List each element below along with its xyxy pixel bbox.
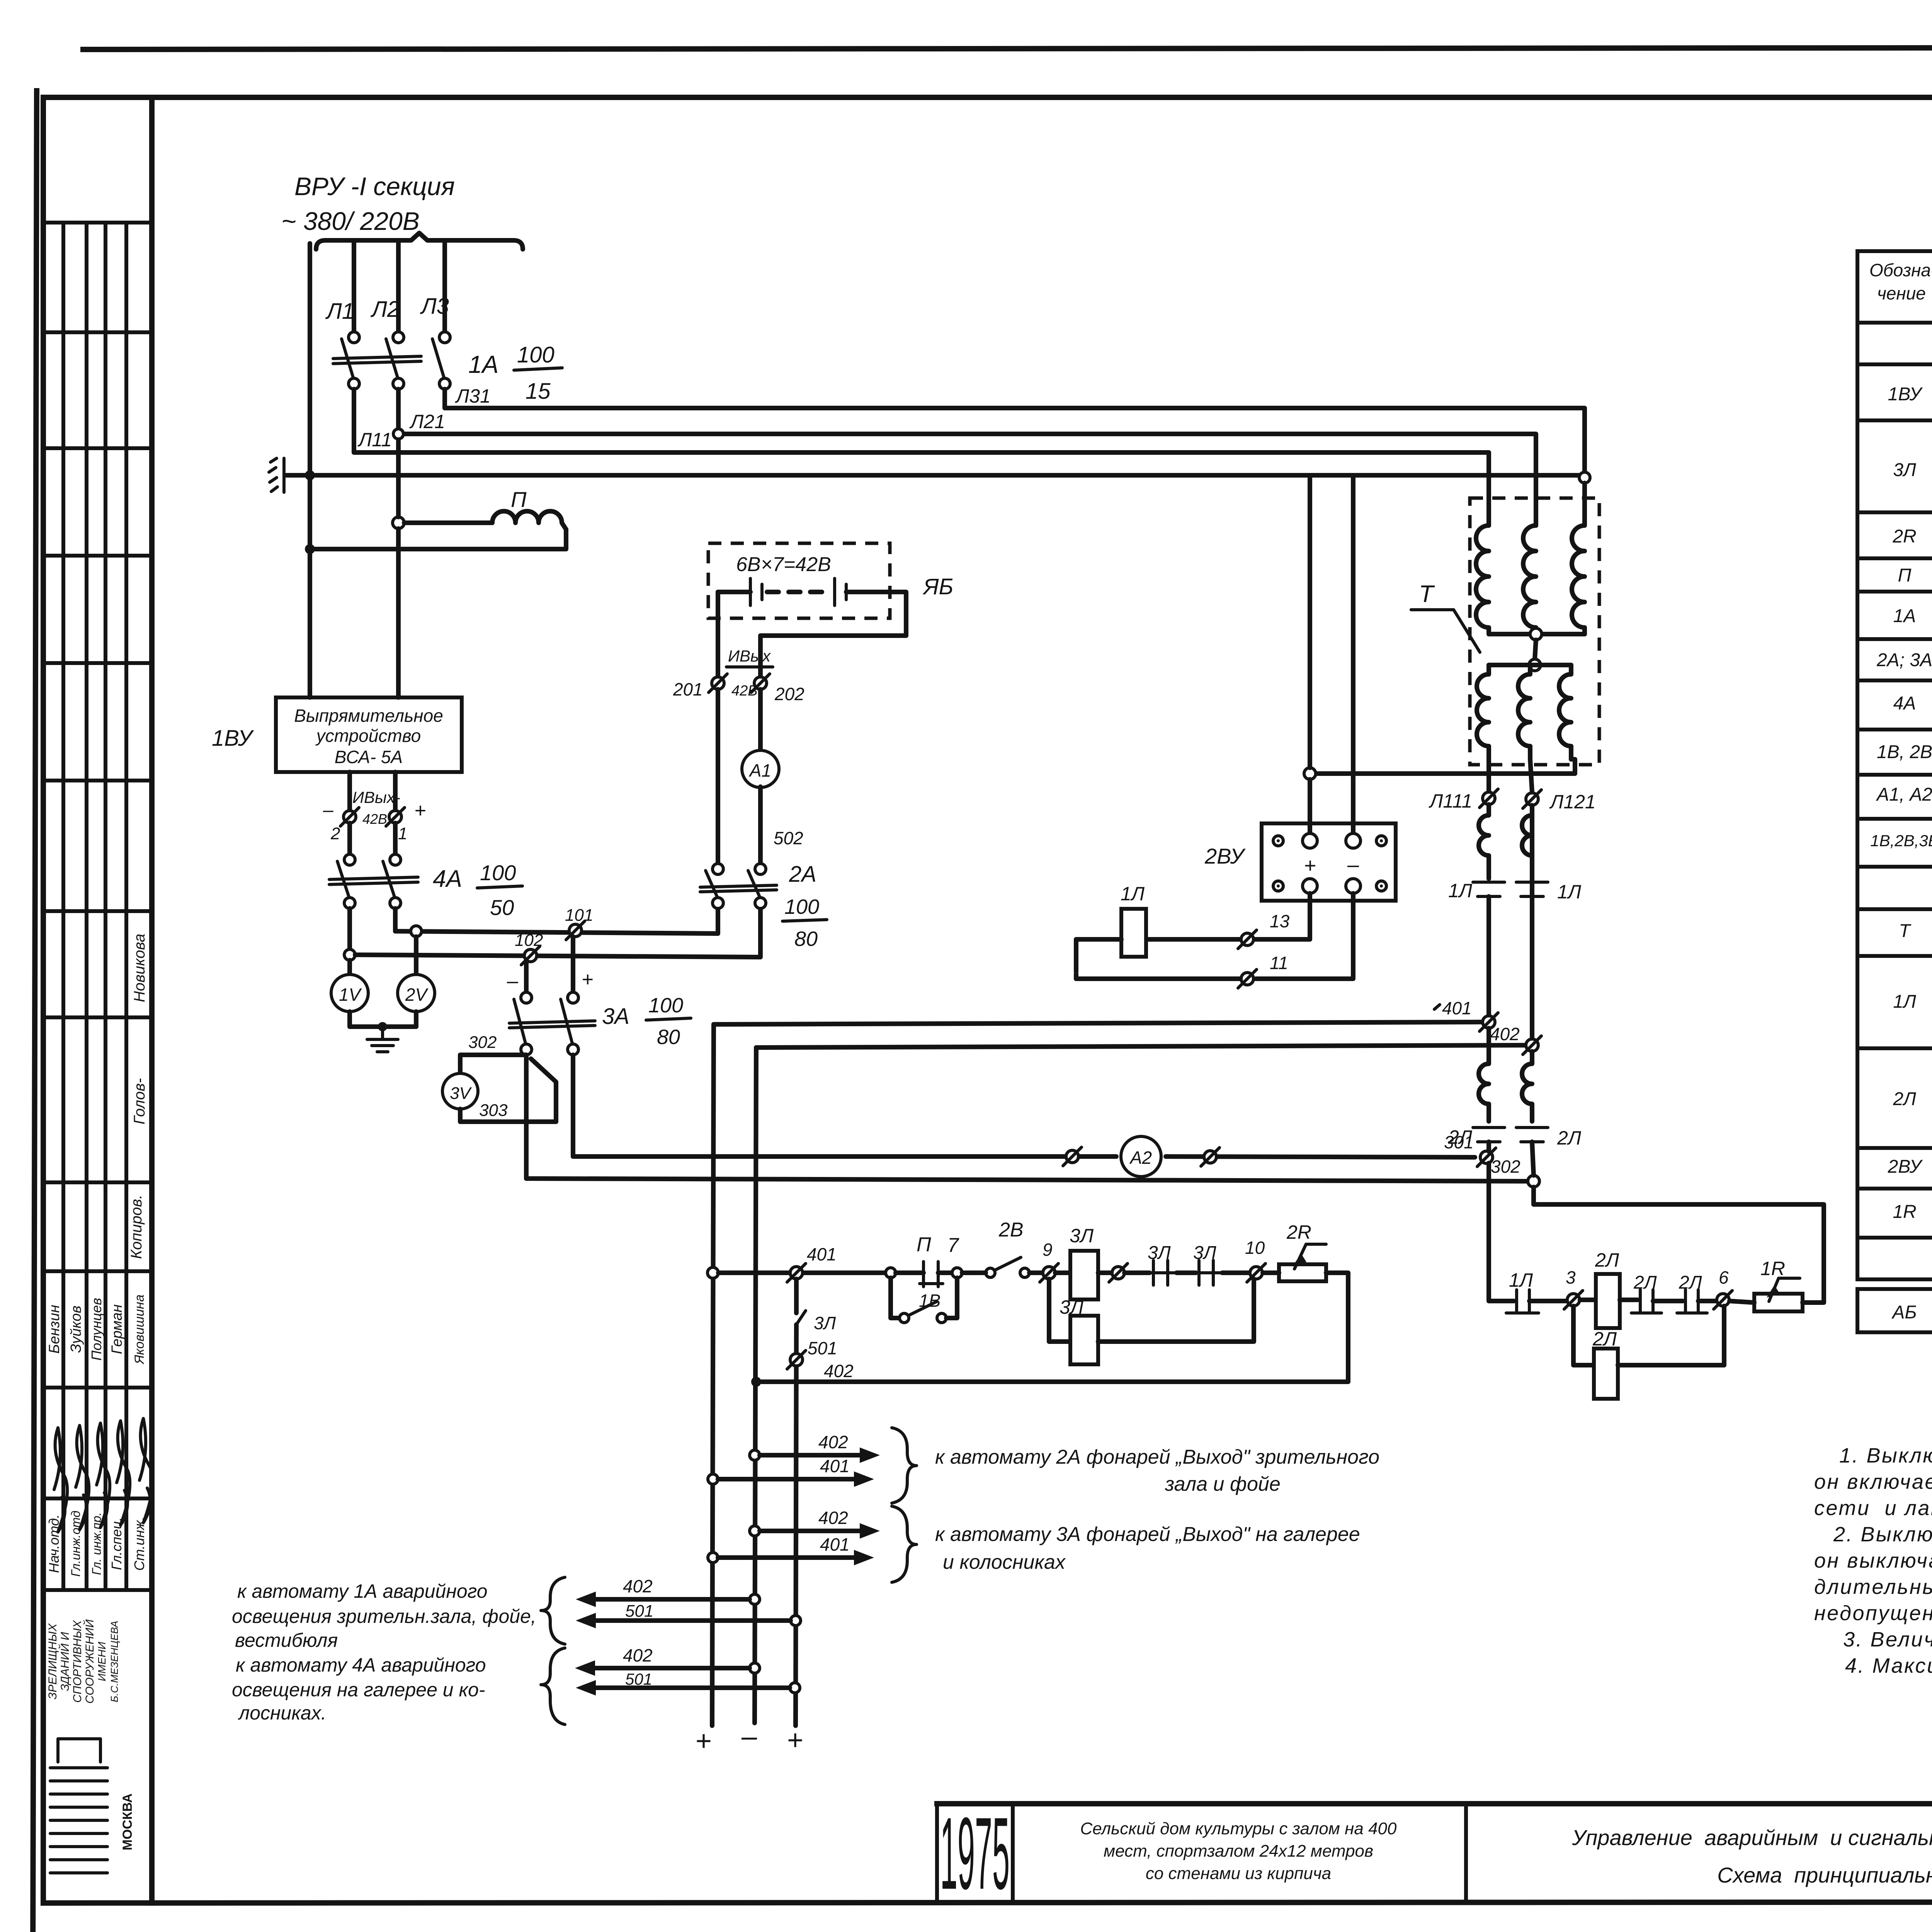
svg-text:3. Величина сопротивления 1R: 3. Величина сопротивления 1R и 2R подбир… — [1843, 1628, 1932, 1651]
node on bus 102 for voltmeter 1V — [344, 949, 355, 960]
wire N drop from bracket — [308, 243, 312, 697]
bus L11 — [354, 389, 1489, 520]
svg-text:ВСА- 5А: ВСА- 5А — [335, 747, 403, 767]
svg-text:102: 102 — [515, 931, 543, 950]
svg-text:к автомату 3А фонарей „Выход": к автомату 3А фонарей „Выход" на галерее — [935, 1523, 1360, 1546]
svg-text:1V: 1V — [339, 985, 362, 1005]
terminal 202 — [754, 677, 767, 689]
breaker 2A pole 1 — [713, 864, 723, 874]
breaker 4A pole 1 — [344, 854, 355, 865]
svg-text:мест, спортзалом 24х12 метров: мест, спортзалом 24х12 метров — [1104, 1842, 1373, 1861]
primary star line — [1489, 632, 1585, 636]
transformer primary coil 1 — [1476, 520, 1489, 634]
node relay line on 401 — [707, 1267, 718, 1278]
svg-text:Л2: Л2 — [370, 297, 400, 322]
bus 401 from relay column — [714, 1022, 1482, 1024]
node L21 corner — [393, 429, 403, 439]
coil 2L lower bypass — [1573, 1306, 1593, 1365]
contact P — [896, 1270, 923, 1275]
breaker 4A linkage — [329, 877, 418, 879]
svg-text:302: 302 — [1491, 1156, 1520, 1177]
terminal 6 — [1717, 1294, 1729, 1306]
svg-text:П: П — [1898, 565, 1912, 586]
svg-text:Сельский дом культуры с залом: Сельский дом культуры с залом на 400 — [1080, 1819, 1397, 1838]
coil P return wire — [315, 529, 566, 549]
second coil 3L bypass — [1049, 1279, 1070, 1342]
wire 2VU minus output 11 — [1256, 893, 1353, 979]
wire 4A plus to bus — [393, 908, 398, 931]
svg-text:7: 7 — [947, 1234, 959, 1257]
wire 2R to 402 return — [762, 1273, 1348, 1382]
svg-text:2Л: 2Л — [1679, 1272, 1702, 1293]
2VU terminals bottom row — [1273, 881, 1283, 891]
svg-text:Герман: Герман — [109, 1304, 125, 1354]
battery minus lead down — [716, 592, 720, 676]
contact 3L second — [1177, 1270, 1196, 1275]
svg-text:302: 302 — [468, 1033, 497, 1052]
terminal 3 — [1567, 1294, 1580, 1306]
svg-text:к автомату 4А аварийного: к автомату 4А аварийного — [236, 1654, 486, 1676]
wire L111 drop — [1486, 759, 1491, 791]
transformer secondary coil 1 — [1477, 665, 1489, 759]
battery plus lead — [760, 592, 906, 676]
svg-text:401: 401 — [820, 1534, 850, 1554]
rectifier 2VU box — [1262, 823, 1396, 901]
svg-text:–: – — [741, 1721, 757, 1752]
wire L111 column lower — [1486, 896, 1491, 1016]
node at meters ground — [378, 1022, 387, 1031]
svg-text:Голов-: Голов- — [131, 1078, 148, 1124]
wire coil 1L left side — [1076, 939, 1121, 972]
left strip column lines — [61, 223, 65, 1590]
breaker 3A linkage — [509, 1021, 595, 1023]
svg-text:чение: чение — [1877, 283, 1926, 303]
svg-text:освещения зрительн.зала, фойе,: освещения зрительн.зала, фойе, — [232, 1605, 536, 1627]
left strip signatures — [54, 1418, 153, 1532]
relay control line — [718, 1270, 885, 1275]
svg-text:~ 380/ 220В: ~ 380/ 220В — [281, 207, 420, 235]
tap 501 to 1A feeder — [791, 1616, 801, 1626]
wire 303 — [460, 1059, 556, 1122]
node secondary to 2VU plus feed — [1304, 768, 1316, 779]
resistor 1R — [1730, 1301, 1754, 1303]
svg-text:сети и ламп.: сети и ламп. — [1814, 1497, 1932, 1520]
element table horizontal lines — [1857, 321, 1932, 325]
contact 2L second — [1684, 1290, 1687, 1312]
breaker 1A pole L3 — [439, 332, 450, 343]
svg-text:402: 402 — [818, 1432, 848, 1452]
wire 3A left pole down (302 bus) — [526, 1055, 1528, 1181]
svg-text:А1, А2: А1, А2 — [1876, 784, 1932, 805]
bus 402 from relay column — [756, 1045, 1525, 1048]
svg-text:3Л: 3Л — [1060, 1296, 1084, 1318]
wire 1VU plus output — [393, 772, 398, 811]
node 402 return — [751, 1377, 761, 1387]
svg-text:2ВУ: 2ВУ — [1204, 844, 1246, 868]
svg-text:10: 10 — [1245, 1238, 1265, 1258]
secondary star line — [1489, 663, 1571, 667]
wires into breaker 4A — [347, 823, 352, 854]
svg-text:ИВых-: ИВых- — [352, 788, 400, 806]
svg-text:ЗРЕЛИЩНЫХ: ЗРЕЛИЩНЫХ — [46, 1623, 59, 1699]
svg-text:Л1: Л1 — [325, 299, 354, 324]
terminal 401 on relay line — [790, 1267, 803, 1279]
node 7 — [952, 1268, 962, 1278]
transformer primary coil 3 — [1572, 520, 1585, 634]
border: outer top edge — [83, 47, 1932, 49]
terminal 201 — [712, 677, 724, 689]
svg-text:3А: 3А — [602, 1004, 629, 1029]
svg-text:Нач.отд.: Нач.отд. — [46, 1514, 62, 1573]
breaker 3A pole 1 — [521, 992, 532, 1003]
arc chute coil on L111 — [1479, 804, 1489, 879]
svg-text:50: 50 — [490, 895, 514, 920]
svg-text:100: 100 — [648, 994, 683, 1017]
svg-text:3V: 3V — [450, 1084, 472, 1103]
bus 101 — [395, 908, 718, 934]
svg-text:Полунцев: Полунцев — [88, 1298, 104, 1361]
node: L31 to transformer right coil junction — [1579, 472, 1590, 483]
terminal 101 — [569, 924, 582, 937]
svg-text:502: 502 — [774, 828, 803, 848]
svg-text:80: 80 — [794, 927, 818, 951]
breaker 1A linkage — [333, 356, 421, 359]
svg-text:ВРУ -I секция: ВРУ -I секция — [294, 172, 455, 201]
svg-text:он включается для опробования: он включается для опробования работы кон… — [1814, 1470, 1932, 1493]
svg-text:Б.С.МЕЗЕНЦЕВА: Б.С.МЕЗЕНЦЕВА — [109, 1621, 120, 1702]
svg-text:4А: 4А — [1893, 693, 1916, 714]
wire 3A right pole down (301 bus with ammeter A2) — [573, 1055, 1116, 1156]
node secondary star — [1529, 659, 1541, 671]
contact 2L first — [1639, 1290, 1642, 1312]
svg-text:1Л: 1Л — [1893, 992, 1916, 1012]
svg-text:2Л: 2Л — [1592, 1328, 1617, 1350]
title block verticals — [935, 1804, 939, 1903]
svg-text:+: + — [787, 1725, 803, 1756]
svg-text:Гл.инж.отд: Гл.инж.отд — [69, 1510, 83, 1577]
contact 1L right — [1516, 881, 1548, 884]
node on bus 101 for voltmeter 2V — [411, 926, 422, 937]
svg-text:1Л: 1Л — [1509, 1269, 1533, 1291]
svg-text:100: 100 — [517, 342, 554, 367]
svg-text:100: 100 — [784, 895, 819, 918]
coil 2L upper — [1580, 1298, 1595, 1302]
svg-text:Т: Т — [1419, 581, 1435, 607]
tap 402 to 4A feeder — [750, 1663, 760, 1673]
secondary output line to 2VU — [1315, 759, 1575, 774]
wire L121 column to 302 node — [1532, 1142, 1534, 1175]
ammeter A2 — [1121, 1136, 1161, 1177]
voltmeter 3V — [442, 1073, 478, 1109]
svg-text:А1: А1 — [748, 760, 771, 781]
tap 402 to 1A feeder — [750, 1594, 760, 1604]
svg-text:2А; 3А: 2А; 3А — [1876, 650, 1932, 670]
svg-text:402: 402 — [623, 1645, 653, 1665]
svg-text:4А: 4А — [433, 866, 462, 892]
bus N / ground bus — [286, 473, 1585, 478]
svg-text:он выключается для отключени: он выключается для отключения части свет… — [1814, 1549, 1932, 1572]
svg-text:АБ: АБ — [1891, 1302, 1917, 1323]
svg-text:Управление аварийным и сигна: Управление аварийным и сигнальным освеще… — [1571, 1825, 1932, 1850]
bus 102 — [355, 908, 760, 957]
wire 201 to breaker 2A — [716, 689, 720, 864]
svg-text:402: 402 — [824, 1361, 854, 1381]
resistor 2R — [1263, 1270, 1279, 1275]
contact 2L right — [1516, 1126, 1548, 1129]
wire 302 node to chain — [1534, 1187, 1824, 1303]
svg-text:101: 101 — [565, 906, 593, 925]
svg-text:2А: 2А — [789, 862, 816, 887]
svg-text:11: 11 — [1270, 953, 1288, 973]
svg-text:1В: 1В — [919, 1291, 940, 1311]
svg-text:13: 13 — [1270, 911, 1290, 931]
svg-text:1ВУ: 1ВУ — [212, 726, 254, 751]
svg-text:201: 201 — [673, 679, 703, 699]
svg-text:Л21: Л21 — [409, 411, 445, 432]
brace left group 2 — [541, 1648, 565, 1725]
node A before contact P — [886, 1268, 896, 1278]
breaker 3A pole 2 — [568, 992, 578, 1003]
contact 3L first — [1124, 1270, 1150, 1275]
contact 1L in chain — [1507, 1299, 1514, 1303]
svg-text:1А: 1А — [1893, 606, 1916, 626]
svg-text:501: 501 — [808, 1338, 837, 1358]
svg-text:Копиров.: Копиров. — [128, 1195, 145, 1259]
coil 3L — [1055, 1270, 1070, 1275]
bus L21 — [398, 389, 1536, 520]
svg-text:401: 401 — [807, 1244, 837, 1264]
svg-text:ЯБ: ЯБ — [922, 574, 953, 599]
node: tap on L2 for starter coil — [393, 517, 404, 529]
breaker 2A linkage — [700, 885, 777, 887]
svg-text:2R: 2R — [1286, 1221, 1311, 1243]
wire bus101 to 3A — [571, 937, 575, 992]
svg-text:402: 402 — [623, 1576, 653, 1596]
svg-text:–: – — [1347, 853, 1359, 876]
tap 401 to 3A feeder — [708, 1553, 718, 1563]
tap 402 to 2A feeder — [750, 1450, 760, 1460]
svg-text:освещения на галерее и ко-: освещения на галерее и ко- — [232, 1679, 485, 1701]
svg-text:А2: А2 — [1129, 1148, 1152, 1168]
terminal 2 (minus) — [344, 811, 356, 823]
svg-text:401: 401 — [1442, 998, 1472, 1018]
arc chute coil on L121 — [1522, 805, 1532, 879]
svg-text:Ст.инж.: Ст.инж. — [131, 1517, 147, 1571]
svg-text:–: – — [507, 970, 519, 992]
wire 302 to voltmeter 3V — [460, 1055, 526, 1073]
svg-text:15: 15 — [526, 379, 551, 404]
svg-text:2В: 2В — [998, 1219, 1024, 1241]
svg-text:Новикова: Новикова — [131, 934, 148, 1002]
terminal L121 — [1526, 793, 1538, 805]
battery cells — [718, 590, 750, 594]
bypass switch 1V — [891, 1278, 900, 1318]
svg-text:3: 3 — [1566, 1267, 1576, 1287]
svg-text:42В: 42В — [362, 811, 387, 827]
wire 13 to coil 1L — [1147, 937, 1240, 942]
svg-text:303: 303 — [479, 1101, 508, 1120]
svg-text:1. Выключатель 1В- нормально н: 1. Выключатель 1В- нормально находится в… — [1839, 1444, 1932, 1467]
wire N tap B down to 2VU — [1351, 475, 1355, 833]
bus vertical 401 — [712, 1024, 714, 1726]
terminal 401 on column — [1483, 1016, 1495, 1028]
wire 4A minus to bus — [347, 908, 352, 955]
terminal after coil 3L — [1112, 1267, 1124, 1279]
svg-text:1В, 2В: 1В, 2В — [1877, 742, 1932, 762]
svg-text:–: – — [323, 800, 333, 820]
brace right group 2 — [892, 1506, 917, 1582]
svg-text:6: 6 — [1719, 1267, 1729, 1287]
node primary star — [1530, 628, 1542, 640]
svg-text:ИМЕНИ: ИМЕНИ — [96, 1641, 108, 1681]
svg-text:к автомату 1А аварийного: к автомату 1А аварийного — [237, 1580, 488, 1602]
bus vertical 501 with 3L contact — [794, 1279, 799, 1313]
svg-text:длительных перерывах питания: длительных перерывах питания переменным … — [1814, 1575, 1932, 1599]
switch 2V open — [986, 1268, 995, 1277]
svg-text:1R: 1R — [1760, 1258, 1785, 1279]
starter coil P — [492, 511, 566, 529]
svg-text:2V: 2V — [405, 985, 429, 1005]
breaker 4A pole 2 — [390, 854, 401, 865]
svg-text:1R: 1R — [1893, 1202, 1916, 1222]
svg-text:+: + — [582, 968, 593, 991]
svg-text:недопущения глубокого разряд: недопущения глубокого разряда аккумулято… — [1814, 1602, 1932, 1625]
svg-text:Л111: Л111 — [1429, 790, 1472, 812]
svg-text:1Л: 1Л — [1557, 881, 1582, 903]
wire L3 drop — [442, 243, 447, 332]
brace left group 1 — [541, 1577, 565, 1644]
svg-text:устройство: устройство — [315, 726, 421, 746]
svg-text:Л3: Л3 — [420, 294, 449, 319]
svg-text:Яковишина: Яковишина — [132, 1294, 147, 1365]
svg-text:2: 2 — [330, 824, 340, 843]
coil 1L (contactor coil) — [1121, 909, 1146, 957]
svg-text:СООРУЖЕНИЙ: СООРУЖЕНИЙ — [83, 1619, 96, 1703]
svg-text:Л11: Л11 — [357, 429, 392, 451]
2VU terminals top row — [1273, 836, 1283, 846]
terminal L111 — [1483, 792, 1495, 804]
ground symbol at N bus — [282, 458, 286, 492]
svg-text:1: 1 — [398, 824, 407, 843]
wire 2VU plus output 13 — [1254, 893, 1310, 939]
svg-text:Гл. инж.пр.: Гл. инж.пр. — [90, 1512, 104, 1575]
wire N tap A down to 2VU junction — [1308, 475, 1312, 768]
wire to coil P — [404, 520, 492, 525]
ground symbol under voltmeters — [381, 1027, 384, 1039]
voltmeter 1V — [347, 960, 352, 975]
wire 301 column to chain — [1489, 1163, 1507, 1301]
svg-text:3Л: 3Л — [1070, 1225, 1094, 1247]
svg-text:3Л: 3Л — [1148, 1243, 1171, 1263]
svg-text:Гл.спец.: Гл.спец. — [109, 1517, 124, 1570]
breaker 1A pole L2 — [393, 332, 404, 343]
svg-text:к автомату 2А фонарей „Выход": к автомату 2А фонарей „Выход" зрительног… — [935, 1446, 1379, 1468]
svg-text:2Л: 2Л — [1633, 1272, 1657, 1293]
svg-text:1А: 1А — [468, 350, 498, 378]
svg-text:МОСКВА: МОСКВА — [120, 1793, 135, 1850]
transformer secondary coil 3 — [1559, 665, 1571, 759]
wire L1 drop — [352, 243, 356, 332]
svg-text:Т: Т — [1899, 921, 1912, 941]
svg-text:2Л: 2Л — [1595, 1249, 1619, 1271]
svg-text:402: 402 — [1490, 1024, 1520, 1044]
wire 11 return — [1076, 976, 1240, 981]
tap 501 to 4A feeder — [790, 1683, 800, 1693]
terminal on 301 bus left of A2 — [1066, 1150, 1078, 1163]
svg-text:2. Выключатель 2В- нормально н: 2. Выключатель 2В- нормально находится в… — [1833, 1523, 1932, 1546]
svg-text:2Л: 2Л — [1448, 1126, 1473, 1148]
svg-text:вестибюля: вестибюля — [235, 1629, 338, 1651]
svg-text:+: + — [414, 799, 426, 822]
svg-text:3Л: 3Л — [1893, 460, 1916, 480]
svg-text:Схема принципиальная: Схема принципиальная — [1717, 1863, 1932, 1887]
svg-text:402: 402 — [818, 1508, 848, 1528]
rectifier unit 1VU box — [276, 697, 462, 772]
svg-text:3Л: 3Л — [1193, 1243, 1216, 1263]
svg-text:П: П — [917, 1233, 931, 1256]
voltmeter 2V — [414, 937, 418, 975]
bus L31 — [445, 389, 1585, 472]
svg-text:ЗДАНИЙ И: ЗДАНИЙ И — [58, 1632, 71, 1691]
left title strip outer — [41, 97, 46, 1903]
svg-text:100: 100 — [480, 861, 516, 885]
terminal 10 — [1222, 1270, 1250, 1275]
svg-text:2Л: 2Л — [1893, 1089, 1916, 1109]
terminal 501 — [790, 1354, 803, 1366]
terminal 402 on column — [1526, 1039, 1538, 1051]
left strip horizontal dividers — [43, 221, 152, 224]
arc chute coil 2 on L121 — [1522, 1051, 1532, 1121]
element table outer border — [1857, 251, 1932, 1279]
contact 1L left — [1473, 881, 1505, 884]
svg-text:+: + — [1304, 854, 1316, 877]
voltmeter ground wires — [350, 1012, 416, 1027]
wire L2 drop — [396, 243, 401, 332]
ammeter A1 — [758, 689, 763, 751]
border: main frame top — [43, 95, 1932, 100]
terminal 301 — [1480, 1151, 1493, 1163]
tap 401 to 2A feeder — [708, 1474, 718, 1484]
svg-text:СПОРТИВНЫХ: СПОРТИВНЫХ — [71, 1620, 84, 1702]
wire 1VU minus output — [347, 772, 352, 811]
wire L121 column lower — [1530, 811, 1534, 1039]
breaker 2A pole 2 — [755, 864, 766, 874]
title block top border — [937, 1801, 1932, 1806]
terminal 9 — [1029, 1270, 1043, 1275]
contact 2L left — [1473, 1126, 1505, 1129]
svg-text:501: 501 — [625, 1670, 652, 1688]
svg-text:1ВУ: 1ВУ — [1888, 384, 1923, 405]
breaker 1A pole L1 — [349, 332, 359, 343]
tap 402 to 3A feeder — [750, 1526, 760, 1536]
svg-text:П: П — [511, 487, 527, 512]
brace right group 1 — [892, 1428, 917, 1503]
border: outer left edge — [33, 91, 37, 1932]
svg-text:2Л: 2Л — [1557, 1127, 1582, 1149]
svg-text:6В×7=42В: 6В×7=42В — [736, 553, 831, 576]
svg-text:Зуйков: Зуйков — [68, 1306, 84, 1353]
border: main frame bottom — [43, 1902, 1932, 1903]
wire L2 down to rectifier 1VU — [396, 434, 401, 517]
transformer primary coil 2 — [1523, 520, 1536, 634]
bracket for VRU feeder — [316, 233, 523, 249]
node 302 junction — [1528, 1175, 1539, 1187]
svg-text:ИВых: ИВых — [728, 647, 771, 665]
transformer T dashed box — [1470, 498, 1599, 765]
svg-text:Бензин: Бензин — [46, 1305, 63, 1354]
svg-text:Л31: Л31 — [455, 385, 491, 407]
terminal on 301 bus right of A2 — [1204, 1151, 1216, 1163]
